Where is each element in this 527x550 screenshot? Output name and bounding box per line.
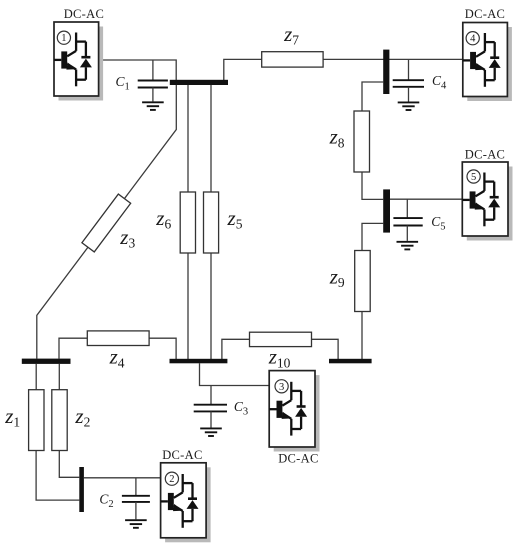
- svg-text:DC-AC: DC-AC: [278, 451, 318, 465]
- svg-text:DC-AC: DC-AC: [64, 7, 104, 21]
- svg-text:4: 4: [470, 34, 476, 45]
- svg-text:DC-AC: DC-AC: [465, 148, 505, 162]
- svg-text:5: 5: [471, 172, 476, 183]
- svg-text:3: 3: [279, 382, 284, 393]
- svg-text:DC-AC: DC-AC: [465, 7, 505, 21]
- svg-text:1: 1: [61, 33, 66, 44]
- svg-text:2: 2: [169, 474, 174, 485]
- svg-text:DC-AC: DC-AC: [162, 448, 202, 462]
